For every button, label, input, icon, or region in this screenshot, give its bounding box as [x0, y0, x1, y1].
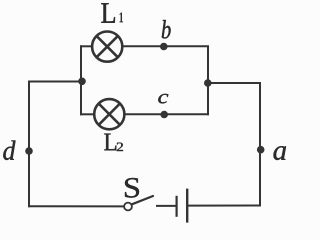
wire: L2 row left lead: [81, 113, 94, 115]
junction dot b: [160, 43, 168, 51]
label a: [273, 146, 285, 160]
lamp L1: [92, 31, 122, 61]
lamp L2: [94, 99, 124, 129]
wire: L1 row left lead: [81, 45, 92, 47]
label d: [3, 140, 15, 160]
junction dot left (at d-branch tee): [78, 78, 86, 86]
switch lever: [132, 196, 153, 204]
wire: L2 row right lead: [125, 113, 209, 115]
switch S pivot circle: [124, 203, 132, 211]
wire: middle horizontal to right vertical: [208, 83, 260, 206]
wire: bottom wire left segment to switch: [29, 205, 124, 207]
wire: L1 row right lead to top-right corner: [123, 46, 209, 114]
label L2: [104, 134, 116, 151]
junction dot c: [160, 111, 168, 119]
label S: [125, 178, 139, 198]
label b: [162, 20, 171, 38]
junction dot right (middle tee): [204, 79, 212, 87]
label c: [158, 94, 168, 104]
junction dot a: [257, 146, 265, 154]
wire: switch to battery segment: [157, 205, 176, 207]
wire: bottom wire right segment from battery: [188, 205, 260, 207]
battery short plate (negative): [176, 196, 178, 217]
wire: left outer vertical (d branch): [29, 82, 82, 207]
junction dot d: [25, 147, 33, 155]
label L1: [101, 3, 115, 22]
battery long plate (positive): [186, 189, 188, 223]
wire: left inner vertical between lamp rows: [80, 46, 82, 114]
